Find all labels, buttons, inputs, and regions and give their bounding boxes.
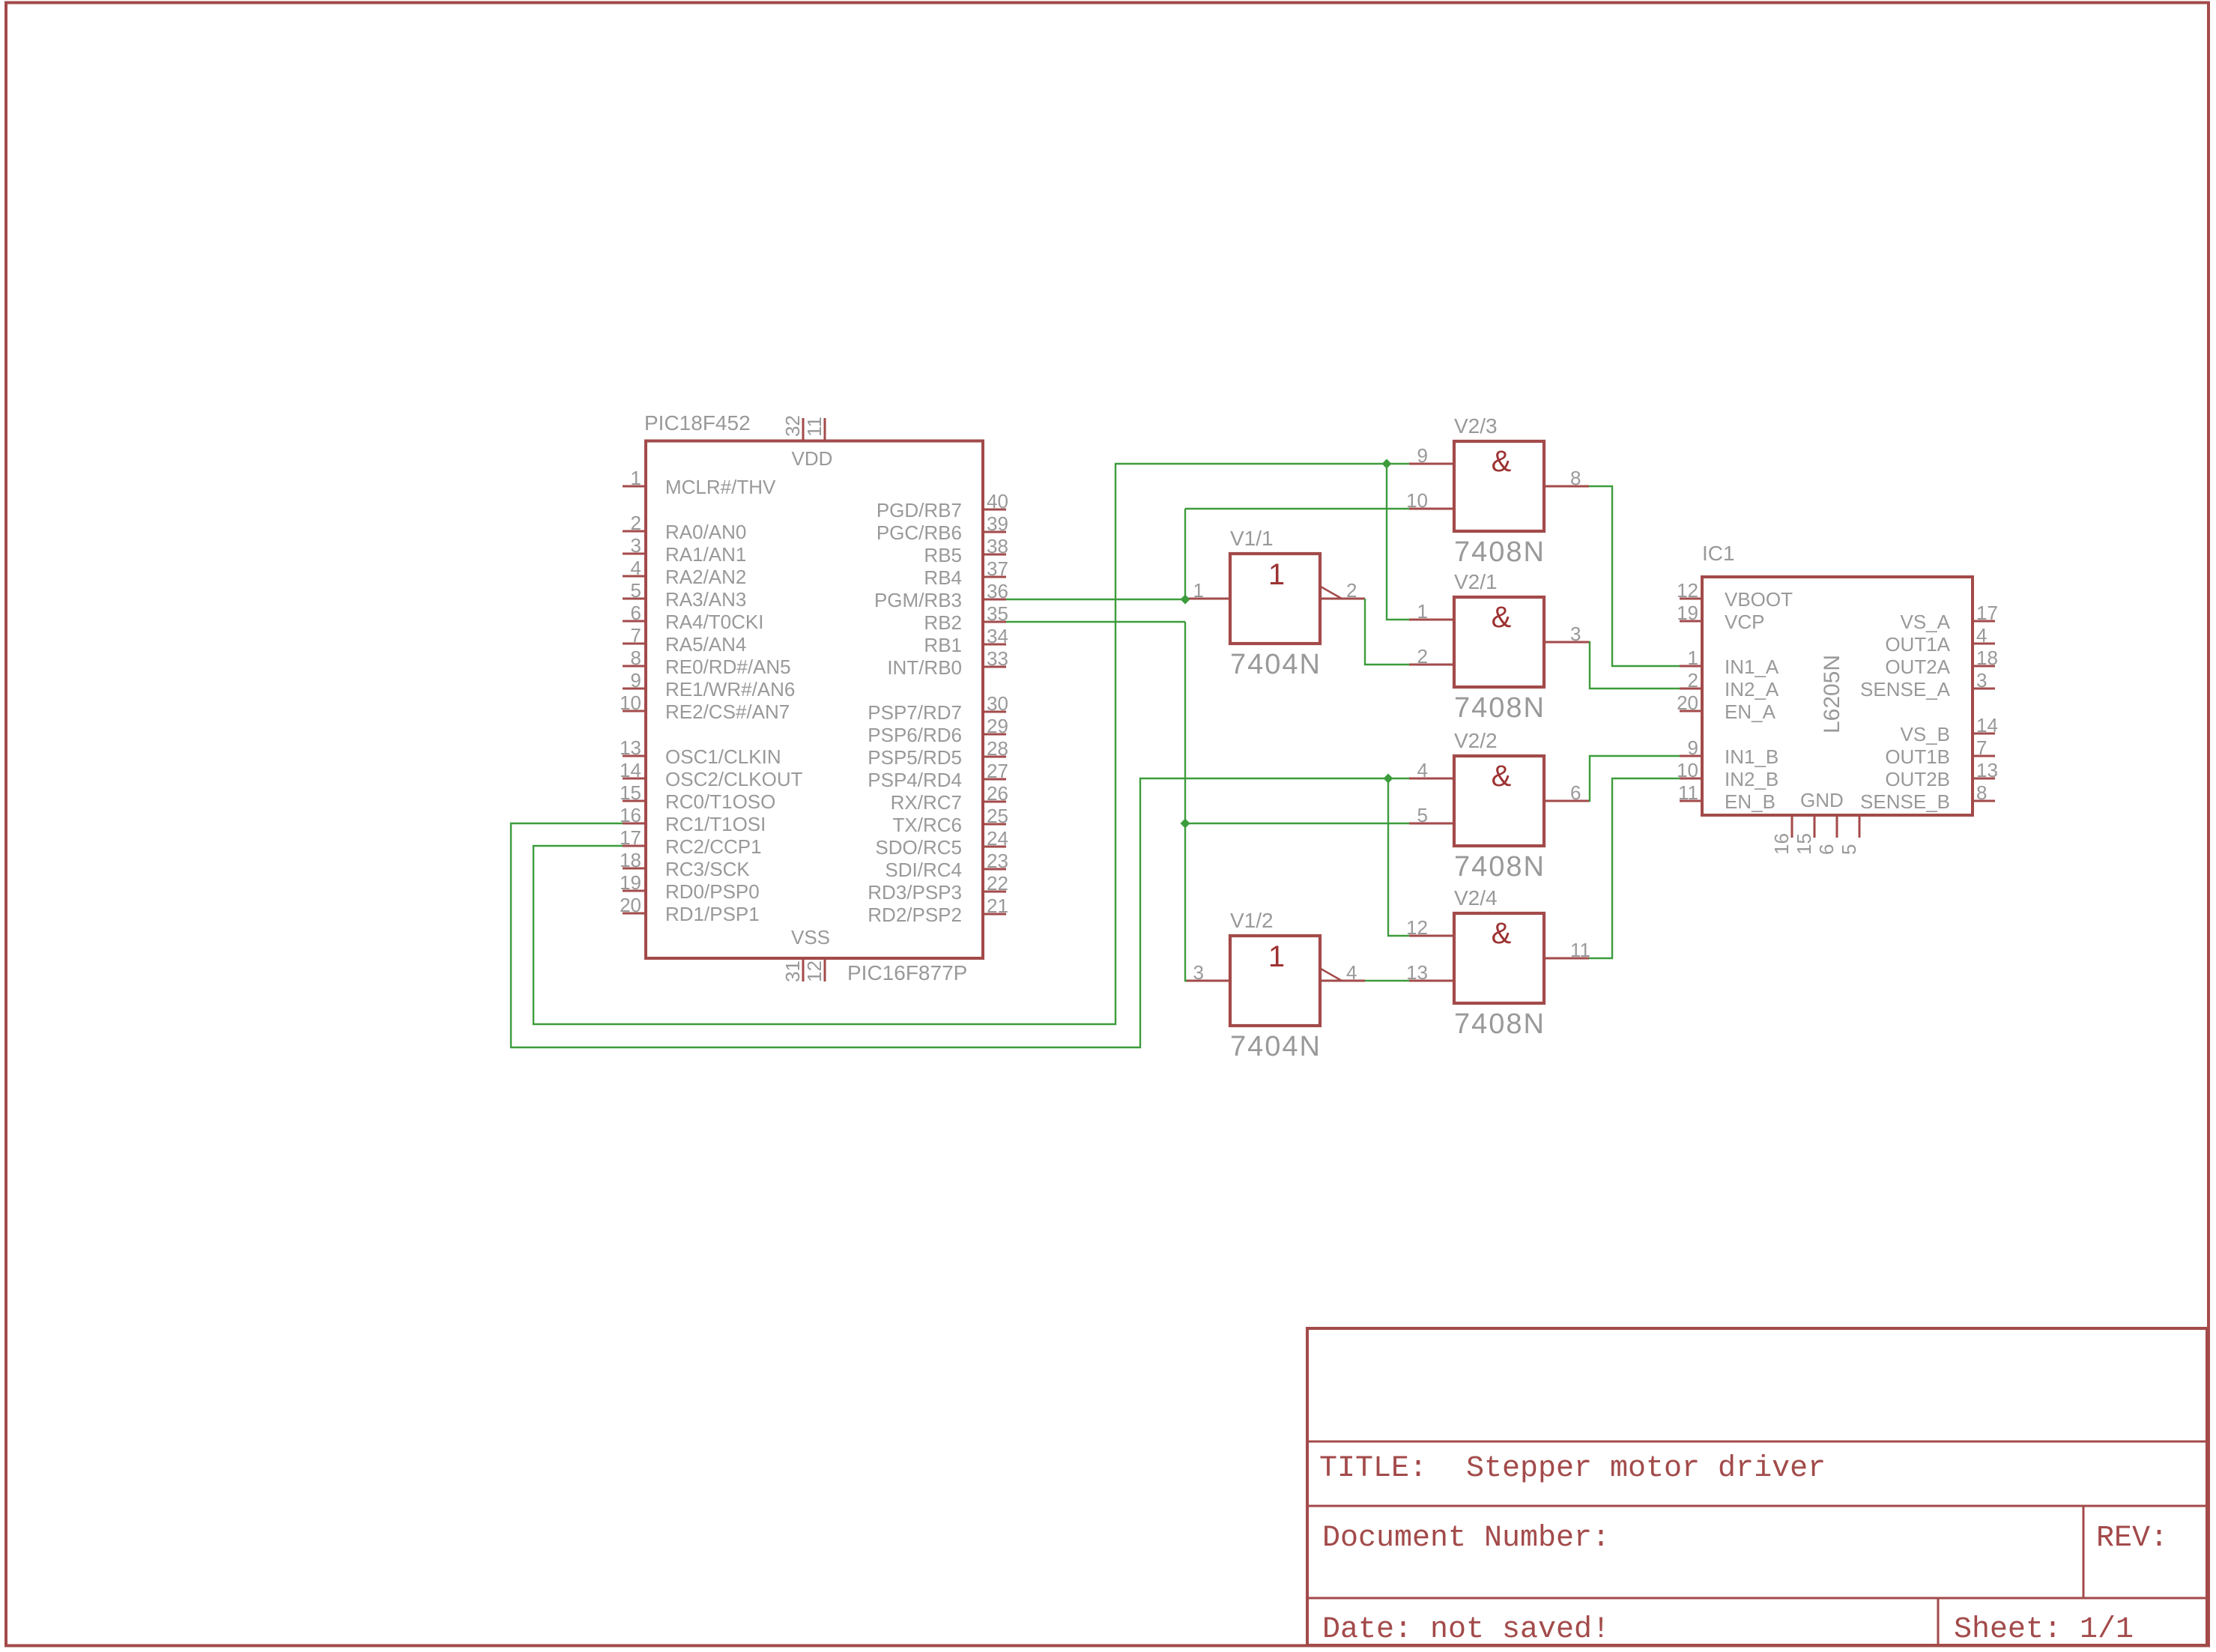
svg-text:7408N: 7408N xyxy=(1454,536,1546,568)
IC1 pin 9 IN1_B xyxy=(1680,736,1778,768)
pin 11 VDD stub xyxy=(803,417,826,441)
svg-text:9: 9 xyxy=(631,669,641,692)
svg-text:V2/3: V2/3 xyxy=(1454,414,1498,438)
svg-text:25: 25 xyxy=(987,805,1008,827)
svg-text:4: 4 xyxy=(631,557,641,579)
pin 1 MCLR#/THV xyxy=(623,467,776,498)
svg-text:9: 9 xyxy=(1417,444,1428,467)
pin 5 RA3/AN3 xyxy=(623,579,746,611)
svg-text:PGC/RB6: PGC/RB6 xyxy=(877,521,962,544)
pin 34 RB1 xyxy=(924,625,1008,656)
svg-text:EN_B: EN_B xyxy=(1725,790,1775,813)
svg-text:33: 33 xyxy=(987,647,1008,670)
svg-text:PSP6/RD6: PSP6/RD6 xyxy=(868,724,962,746)
svg-text:24: 24 xyxy=(987,827,1008,850)
svg-text:7404N: 7404N xyxy=(1230,649,1322,680)
svg-text:20: 20 xyxy=(620,894,641,916)
pin 12 input A stub xyxy=(1406,916,1454,939)
pin 39 PGC/RB6 xyxy=(877,512,1008,544)
wire RB3 vertical up to V2/3 pin10 row xyxy=(1184,509,1186,599)
svg-text:1: 1 xyxy=(1268,558,1285,591)
svg-text:REV:: REV: xyxy=(2096,1522,2168,1555)
IC1 pin 13 OUT2B xyxy=(1885,759,1998,790)
svg-text:RX/RC7: RX/RC7 xyxy=(891,791,962,814)
pin 19 RD0/PSP0 xyxy=(620,871,760,903)
svg-text:RA4/T0CKI: RA4/T0CKI xyxy=(665,611,764,633)
IC1 pin 15 GND stub xyxy=(1793,815,1815,855)
wire V2/3 output to IC1 pin1 IN1_A xyxy=(1589,486,1680,666)
svg-text:IN2_B: IN2_B xyxy=(1725,768,1778,790)
IC1 pin 6 GND stub xyxy=(1815,815,1838,855)
wire RC1 into V2/2 pin4 xyxy=(1388,778,1409,779)
wire RC1 branch down to V2/4 pin12 xyxy=(1388,778,1409,936)
junction RB3 at V1/1 input xyxy=(1181,595,1190,605)
AND gate V2/4 body xyxy=(1454,913,1544,1003)
IC1 pin 5 GND stub xyxy=(1838,815,1860,855)
pin 31 VSS stub xyxy=(781,958,804,982)
svg-text:RC2/CCP1: RC2/CCP1 xyxy=(665,835,762,858)
IC1 pin 7 OUT1B xyxy=(1885,736,1995,768)
svg-text:4: 4 xyxy=(1976,624,1987,647)
svg-text:SDI/RC4: SDI/RC4 xyxy=(885,859,962,881)
pin 24 SDO/RC5 xyxy=(875,827,1008,859)
wire RB2 branch to V2/2 pin5 xyxy=(1185,823,1409,824)
svg-text:VBOOT: VBOOT xyxy=(1725,588,1793,611)
IC1 pin 8 SENSE_B xyxy=(1860,781,1995,813)
pin 20 RD1/PSP1 xyxy=(620,894,760,925)
svg-text:V1/1: V1/1 xyxy=(1230,527,1274,550)
pin 21 RD2/PSP2 xyxy=(868,895,1008,926)
svg-text:4: 4 xyxy=(1346,961,1357,984)
svg-text:7: 7 xyxy=(631,624,641,647)
pin 32 VDD stub xyxy=(781,415,804,441)
svg-text:RA1/AN1: RA1/AN1 xyxy=(665,543,746,566)
svg-text:2: 2 xyxy=(631,512,641,534)
svg-text:31: 31 xyxy=(781,960,804,982)
svg-text:12: 12 xyxy=(803,960,826,982)
svg-text:VCP: VCP xyxy=(1725,611,1764,633)
svg-text:1: 1 xyxy=(1193,579,1204,602)
svg-text:22: 22 xyxy=(987,872,1008,895)
svg-text:&: & xyxy=(1492,917,1512,950)
svg-text:OSC1/CLKIN: OSC1/CLKIN xyxy=(665,745,781,768)
pin 1 input A stub xyxy=(1409,600,1454,623)
wire V1/1 output to V2/1 pin2 xyxy=(1365,599,1409,665)
inverter V1/1 body xyxy=(1230,554,1320,644)
pin 26 RX/RC7 xyxy=(891,782,1008,814)
svg-text:RB2: RB2 xyxy=(924,611,962,634)
IC1 pin 12 VBOOT xyxy=(1677,579,1793,611)
pin 1 input stub xyxy=(1185,579,1230,602)
svg-text:&: & xyxy=(1492,445,1512,478)
svg-text:4: 4 xyxy=(1417,759,1428,781)
svg-text:Sheet: 1/1: Sheet: 1/1 xyxy=(1954,1613,2134,1647)
pin 23 SDI/RC4 xyxy=(885,850,1008,881)
svg-text:OUT1B: OUT1B xyxy=(1885,745,1950,768)
svg-text:6: 6 xyxy=(1815,844,1838,855)
svg-text:V2/4: V2/4 xyxy=(1454,886,1498,910)
pin 3 input stub xyxy=(1185,961,1230,984)
pin 38 RB5 xyxy=(924,535,1008,566)
svg-text:RD3/PSP3: RD3/PSP3 xyxy=(868,881,962,904)
svg-text:6: 6 xyxy=(631,602,641,624)
AND gate V2/3 body xyxy=(1454,441,1544,531)
junction RC1 at V2/2 pin4 branch xyxy=(1384,774,1393,784)
svg-text:RE2/CS#/AN7: RE2/CS#/AN7 xyxy=(665,701,790,723)
svg-text:V1/2: V1/2 xyxy=(1230,909,1274,932)
IC1 pin 16 GND stub xyxy=(1770,815,1793,855)
svg-text:5: 5 xyxy=(1417,804,1428,826)
svg-text:40: 40 xyxy=(987,490,1008,512)
svg-text:3: 3 xyxy=(1570,623,1581,645)
svg-text:12: 12 xyxy=(1677,579,1698,602)
svg-text:1: 1 xyxy=(1268,940,1285,973)
svg-text:38: 38 xyxy=(987,535,1008,557)
svg-text:L6205N: L6205N xyxy=(1820,655,1844,733)
svg-text:17: 17 xyxy=(620,826,641,849)
svg-text:36: 36 xyxy=(987,580,1008,602)
pin 10 input B stub xyxy=(1406,489,1454,512)
svg-text:TX/RC6: TX/RC6 xyxy=(893,814,962,836)
wire RC1 from PIC pin16 left and around bottom xyxy=(511,778,1388,1047)
svg-text:9: 9 xyxy=(1688,736,1698,759)
svg-text:8: 8 xyxy=(1570,467,1581,489)
wire RC2 into V2/3 pin9 xyxy=(1387,463,1409,465)
wire RB2 vertical down to V1/2 input xyxy=(1185,622,1187,981)
pin 6 RA4/T0CKI xyxy=(623,602,764,633)
wire RB3 into V2/3 pin10 xyxy=(1185,508,1409,509)
svg-text:19: 19 xyxy=(620,871,641,894)
pin 22 RD3/PSP3 xyxy=(868,872,1008,904)
svg-text:&: & xyxy=(1492,601,1512,634)
IC1 L6205N body xyxy=(1702,577,1973,815)
svg-text:19: 19 xyxy=(1677,602,1698,624)
pin 35 RB2 xyxy=(924,602,1008,634)
svg-text:21: 21 xyxy=(987,895,1008,917)
svg-text:INT/RB0: INT/RB0 xyxy=(887,656,962,679)
svg-text:OUT2A: OUT2A xyxy=(1885,656,1950,678)
svg-text:Date: not saved!: Date: not saved! xyxy=(1322,1613,1610,1647)
svg-text:RB4: RB4 xyxy=(924,566,962,589)
svg-text:OUT2B: OUT2B xyxy=(1885,768,1950,790)
pin 27 PSP4/RD4 xyxy=(868,760,1008,791)
pin 2 output stub with inverter wedge xyxy=(1320,579,1365,602)
svg-text:IN1_B: IN1_B xyxy=(1725,745,1778,768)
pin 10 RE2/CS#/AN7 xyxy=(620,692,790,723)
svg-text:EN_A: EN_A xyxy=(1725,701,1776,723)
IC1 pin 1 IN1_A xyxy=(1680,647,1779,678)
title block outline xyxy=(1307,1328,2207,1645)
svg-text:5: 5 xyxy=(631,579,641,602)
svg-text:RC1/T1OSI: RC1/T1OSI xyxy=(665,813,766,835)
svg-text:VSS: VSS xyxy=(791,926,830,948)
IC1 pin 4 OUT1A xyxy=(1885,624,1995,656)
svg-text:8: 8 xyxy=(1976,781,1987,804)
pin 17 RC2/CCP1 xyxy=(620,826,762,858)
svg-text:34: 34 xyxy=(987,625,1008,647)
IC1 pin 2 IN2_A xyxy=(1680,669,1779,701)
wire V2/2 output to IC1 pin9 IN1_B xyxy=(1589,756,1680,801)
svg-text:GND: GND xyxy=(1800,789,1844,811)
IC1 pin 18 OUT2A xyxy=(1885,647,1998,678)
svg-text:7408N: 7408N xyxy=(1454,1008,1546,1040)
wire RB2 from PIC pin35 xyxy=(1006,621,1185,623)
junction RC2 at V2/3 pin9 branch xyxy=(1382,459,1392,469)
AND gate V2/2 body xyxy=(1454,756,1544,846)
svg-text:V2/1: V2/1 xyxy=(1454,570,1498,593)
svg-text:RD1/PSP1: RD1/PSP1 xyxy=(665,903,760,925)
svg-text:13: 13 xyxy=(1976,759,1998,781)
svg-text:SDO/RC5: SDO/RC5 xyxy=(875,836,962,859)
pin 9 RE1/WR#/AN6 xyxy=(623,669,795,701)
pin 29 PSP6/RD6 xyxy=(868,715,1008,746)
svg-text:17: 17 xyxy=(1976,602,1998,624)
svg-text:7404N: 7404N xyxy=(1230,1031,1322,1062)
IC1 pin 19 VCP xyxy=(1677,602,1764,633)
pin 25 TX/RC6 xyxy=(893,805,1008,836)
svg-text:RE1/WR#/AN6: RE1/WR#/AN6 xyxy=(665,678,795,701)
svg-text:11: 11 xyxy=(803,417,826,437)
svg-text:1: 1 xyxy=(1417,600,1428,623)
svg-text:RD0/PSP0: RD0/PSP0 xyxy=(665,880,760,903)
svg-text:11: 11 xyxy=(1678,781,1698,804)
wire RC2 branch down to V2/1 pin1 xyxy=(1387,464,1409,620)
svg-text:Document Number:: Document Number: xyxy=(1322,1522,1610,1555)
svg-text:14: 14 xyxy=(1976,714,1998,736)
pin 9 input A stub xyxy=(1409,444,1454,467)
svg-text:RC0/T1OSO: RC0/T1OSO xyxy=(665,790,775,813)
svg-text:15: 15 xyxy=(620,781,641,804)
pin 37 RB4 xyxy=(924,557,1008,589)
IC1 pin 3 SENSE_A xyxy=(1860,669,1995,701)
svg-text:30: 30 xyxy=(987,692,1008,715)
svg-text:6: 6 xyxy=(1570,781,1581,804)
IC1 pin 10 IN2_B xyxy=(1677,759,1778,790)
svg-text:11: 11 xyxy=(1570,939,1590,961)
svg-text:13: 13 xyxy=(1406,961,1428,984)
svg-text:2: 2 xyxy=(1417,645,1428,668)
svg-text:OUT1A: OUT1A xyxy=(1885,633,1950,656)
IC1 pin 14 VS_B xyxy=(1901,714,1998,745)
svg-text:Stepper motor driver: Stepper motor driver xyxy=(1466,1452,1826,1486)
pin 28 PSP5/RD5 xyxy=(868,737,1008,769)
svg-text:10: 10 xyxy=(1677,759,1698,781)
svg-text:RB5: RB5 xyxy=(924,544,962,566)
wire V1/2 output to V2/4 pin13 xyxy=(1365,980,1409,981)
pin 8 RE0/RD#/AN5 xyxy=(623,647,791,678)
svg-text:RA5/AN4: RA5/AN4 xyxy=(665,633,746,656)
svg-text:VS_B: VS_B xyxy=(1901,723,1951,745)
svg-text:10: 10 xyxy=(620,692,641,714)
svg-text:IN2_A: IN2_A xyxy=(1725,678,1779,701)
svg-text:RE0/RD#/AN5: RE0/RD#/AN5 xyxy=(665,656,791,678)
svg-text:IN1_A: IN1_A xyxy=(1725,656,1779,678)
svg-text:23: 23 xyxy=(987,850,1008,872)
svg-text:28: 28 xyxy=(987,737,1008,760)
pin 4 output stub with inverter wedge xyxy=(1320,961,1365,984)
wire V2/1 output to IC1 pin2 IN2_A xyxy=(1589,642,1680,689)
pin 16 RC1/T1OSI xyxy=(620,804,766,835)
svg-text:13: 13 xyxy=(620,736,641,759)
pin 4 RA2/AN2 xyxy=(623,557,746,588)
svg-text:7: 7 xyxy=(1976,736,1987,759)
svg-text:27: 27 xyxy=(987,760,1008,782)
svg-text:2: 2 xyxy=(1688,669,1698,692)
svg-text:TITLE:: TITLE: xyxy=(1319,1452,1427,1486)
svg-text:15: 15 xyxy=(1793,833,1815,855)
junction RB2 at V2/2 pin5 branch xyxy=(1181,819,1190,829)
pin 15 RC0/T1OSO xyxy=(620,781,775,813)
svg-text:10: 10 xyxy=(1406,489,1428,512)
pin 14 OSC2/CLKOUT xyxy=(620,759,803,790)
pin 40 PGD/RB7 xyxy=(877,490,1008,521)
pin 3 RA1/AN1 xyxy=(623,534,746,566)
svg-text:RA2/AN2: RA2/AN2 xyxy=(665,566,746,588)
svg-text:29: 29 xyxy=(987,715,1008,737)
wire RC2 from PIC pin17 around to junction at V2/3 pin9 xyxy=(533,464,1387,1024)
svg-text:RC3/SCK: RC3/SCK xyxy=(665,858,750,880)
svg-text:1: 1 xyxy=(1688,647,1698,669)
svg-text:8: 8 xyxy=(631,647,641,669)
inverter V1/2 body xyxy=(1230,936,1320,1026)
pin 36 PGM/RB3 xyxy=(874,580,1008,611)
pin 6 output stub xyxy=(1544,781,1589,804)
svg-text:SENSE_A: SENSE_A xyxy=(1860,678,1951,701)
svg-text:IC1: IC1 xyxy=(1702,542,1735,565)
pin 30 PSP7/RD7 xyxy=(868,692,1008,724)
svg-text:5: 5 xyxy=(1838,844,1860,855)
pin 7 RA5/AN4 xyxy=(623,624,746,656)
svg-text:&: & xyxy=(1492,760,1512,793)
AND gate V2/1 body xyxy=(1454,597,1544,687)
svg-text:1: 1 xyxy=(631,467,641,489)
svg-text:OSC2/CLKOUT: OSC2/CLKOUT xyxy=(665,768,803,790)
pin 33 INT/RB0 xyxy=(887,647,1008,679)
pin 11 output stub xyxy=(1544,939,1590,961)
svg-text:RA0/AN0: RA0/AN0 xyxy=(665,521,746,543)
svg-text:7408N: 7408N xyxy=(1454,692,1546,724)
svg-text:PSP5/RD5: PSP5/RD5 xyxy=(868,746,962,769)
svg-text:12: 12 xyxy=(1406,916,1428,939)
svg-text:PGM/RB3: PGM/RB3 xyxy=(874,589,962,611)
pin 2 input B stub xyxy=(1409,645,1454,668)
svg-text:PSP4/RD4: PSP4/RD4 xyxy=(868,769,962,791)
svg-text:32: 32 xyxy=(781,415,804,437)
svg-text:RD2/PSP2: RD2/PSP2 xyxy=(868,904,962,926)
svg-text:RA3/AN3: RA3/AN3 xyxy=(665,588,746,611)
svg-text:18: 18 xyxy=(620,849,641,871)
svg-text:RB1: RB1 xyxy=(924,634,962,656)
svg-text:3: 3 xyxy=(1193,961,1204,984)
svg-text:VDD: VDD xyxy=(792,447,833,470)
svg-text:20: 20 xyxy=(1677,692,1698,714)
IC PIC18F452 body xyxy=(646,441,983,959)
svg-text:14: 14 xyxy=(620,759,641,781)
pin 2 RA0/AN0 xyxy=(623,512,746,543)
svg-text:PSP7/RD7: PSP7/RD7 xyxy=(868,701,962,724)
svg-text:35: 35 xyxy=(987,602,1008,625)
pin 3 output stub xyxy=(1544,623,1589,645)
IC1 pin 20 EN_A xyxy=(1677,692,1776,723)
svg-text:2: 2 xyxy=(1346,579,1357,602)
pin 4 input A stub xyxy=(1409,759,1454,781)
svg-text:V2/2: V2/2 xyxy=(1454,729,1498,752)
wire RB3 from PIC pin36 to junction at V1/1 input xyxy=(1006,599,1185,600)
pin 18 RC3/SCK xyxy=(620,849,750,880)
IC1 pin 11 EN_B xyxy=(1678,781,1775,813)
svg-text:3: 3 xyxy=(1976,669,1987,692)
svg-text:PGD/RB7: PGD/RB7 xyxy=(877,499,962,521)
IC1 pin 17 VS_A xyxy=(1901,602,1998,633)
wire V2/4 output to IC1 pin10 IN2_B xyxy=(1589,778,1680,958)
svg-text:VS_A: VS_A xyxy=(1901,611,1951,633)
svg-text:PIC16F877P: PIC16F877P xyxy=(847,961,967,984)
pin 13 input B stub xyxy=(1406,961,1454,984)
svg-text:7408N: 7408N xyxy=(1454,851,1546,883)
pin 13 OSC1/CLKIN xyxy=(620,736,781,768)
svg-text:PIC18F452: PIC18F452 xyxy=(644,411,751,435)
pin 12 VSS stub xyxy=(803,958,826,982)
svg-text:MCLR#/THV: MCLR#/THV xyxy=(665,476,776,498)
svg-text:16: 16 xyxy=(620,804,641,826)
svg-text:39: 39 xyxy=(987,512,1008,535)
svg-text:18: 18 xyxy=(1976,647,1998,669)
svg-text:37: 37 xyxy=(987,557,1008,580)
svg-text:SENSE_B: SENSE_B xyxy=(1860,790,1950,813)
svg-text:3: 3 xyxy=(631,534,641,557)
svg-text:16: 16 xyxy=(1770,833,1793,855)
svg-text:26: 26 xyxy=(987,782,1008,805)
pin 5 input B stub xyxy=(1409,804,1454,826)
pin 8 output stub xyxy=(1544,467,1589,489)
